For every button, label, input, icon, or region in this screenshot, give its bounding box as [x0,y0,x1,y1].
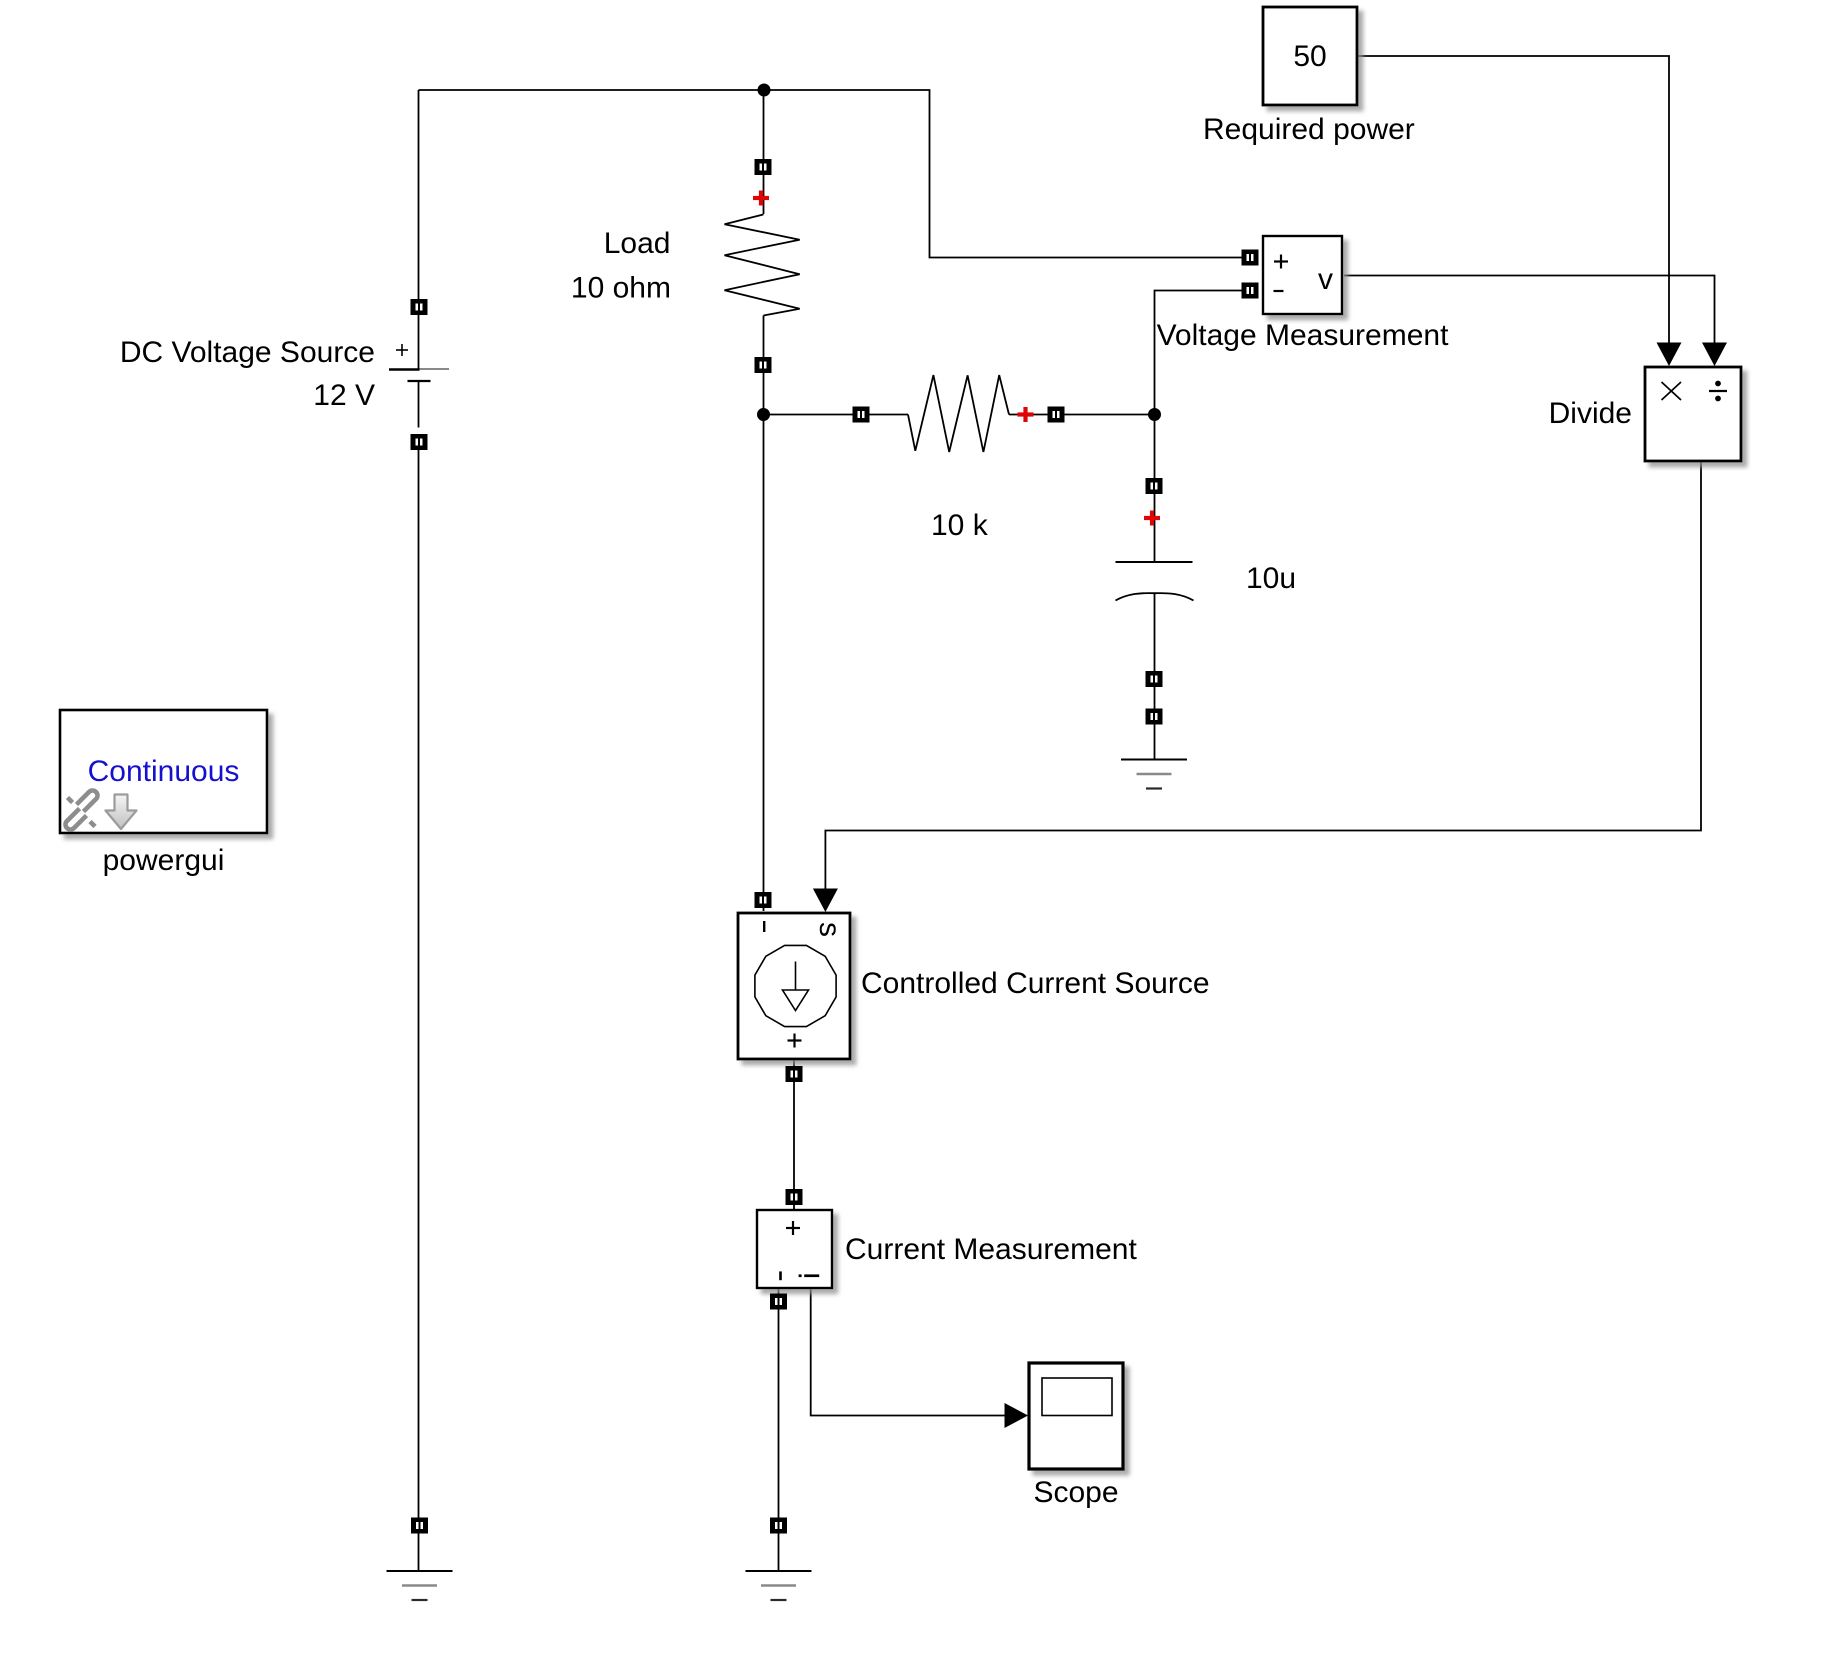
svg-text:v: v [1318,263,1333,296]
svg-text:Continuous: Continuous [88,755,240,788]
svg-text:Divide: Divide [1549,397,1632,430]
svg-text:10 k: 10 k [931,509,989,542]
svg-text:Scope: Scope [1033,1476,1118,1509]
svg-text:Load: Load [604,227,671,260]
svg-text:DC Voltage Source: DC Voltage Source [120,336,375,369]
svg-text:powergui: powergui [103,844,225,877]
svg-text:Current Measurement: Current Measurement [845,1233,1137,1266]
svg-text:s: s [813,922,846,937]
svg-text:12 V: 12 V [313,379,375,412]
svg-text:50: 50 [1293,40,1326,73]
svg-text:Controlled Current Source: Controlled Current Source [861,967,1210,1000]
svg-text:Voltage Measurement: Voltage Measurement [1157,319,1450,352]
svg-text:Required power: Required power [1203,113,1415,146]
svg-text:10 ohm: 10 ohm [571,272,671,305]
svg-text:10u: 10u [1246,562,1296,595]
